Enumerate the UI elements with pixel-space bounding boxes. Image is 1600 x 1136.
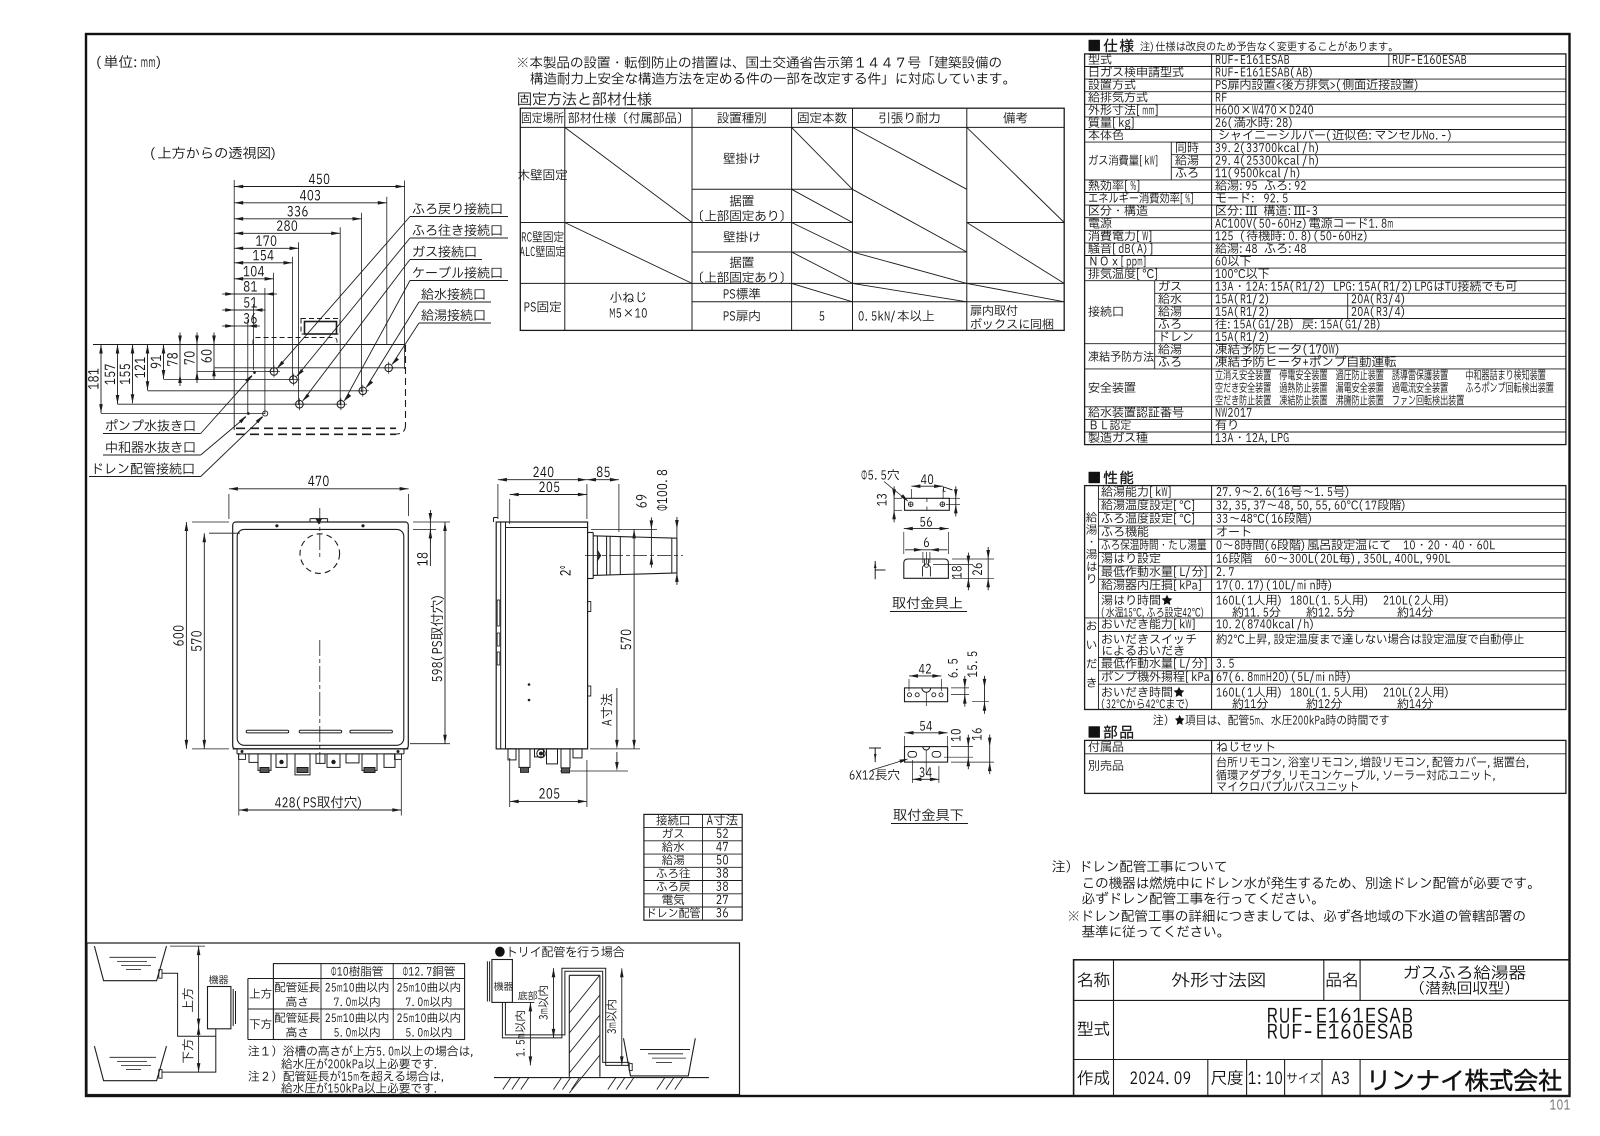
side view dots	[528, 683, 531, 686]
label ふろ往き接続口	[413, 224, 502, 236]
vdim 70	[196, 345, 198, 372]
label 給水接続口	[421, 288, 484, 300]
front view bottom slots	[246, 730, 289, 733]
bracket lower 16 dim	[989, 747, 991, 763]
bracket orientation mark upper	[875, 561, 885, 579]
side view exhaust pipe	[588, 532, 594, 534]
piping length table	[273, 964, 464, 1040]
dim 154	[234, 262, 292, 264]
dim 280	[234, 232, 340, 234]
front view body outline	[233, 522, 409, 749]
front view top tab	[309, 519, 311, 522]
performance texts	[1101, 486, 1170, 498]
front view 570 dim	[203, 533, 205, 749]
pipe from lower tub	[162, 1036, 216, 1072]
bracket lower plate2 54 dim	[905, 732, 948, 734]
front view top center arrow mark	[316, 519, 322, 525]
side view back plate tab	[493, 518, 495, 523]
lower tub fitting	[159, 1070, 162, 1079]
spec model split	[1388, 54, 1390, 67]
teibu label	[518, 991, 537, 1000]
wall cross-section with hatching	[568, 975, 570, 1077]
side view 205 dim bottom	[510, 800, 587, 802]
bracket lower 10 dim	[967, 747, 969, 758]
A size table	[644, 814, 742, 920]
dim 51	[234, 309, 253, 311]
spec table title ■仕様	[1089, 39, 1134, 52]
parts table title ■部品	[1089, 725, 1133, 738]
spec 20A split	[1347, 293, 1349, 318]
dim 3m right	[621, 968, 623, 1065]
side view A dim	[616, 688, 618, 745]
front view 598 dim	[444, 522, 446, 744]
bracket lower label	[894, 809, 964, 821]
piping panel box	[87, 943, 740, 1095]
label phi5.5 hole	[862, 469, 899, 480]
title row3 dividers	[1207, 1060, 1209, 1097]
bracket lower 6.5 dim	[964, 688, 966, 695]
unit box (kiki)	[209, 975, 228, 984]
dim 1.5m inner	[529, 1002, 531, 1065]
parts texts	[1088, 741, 1123, 752]
side view left slots	[497, 600, 500, 626]
fixing method table	[520, 108, 1064, 330]
top view feature rows	[93, 344, 406, 346]
front view 428 dim	[239, 809, 401, 811]
dim 170	[234, 247, 298, 249]
bracket upper2 26 dim	[987, 559, 989, 578]
label 6X12 slot	[850, 769, 900, 780]
front view base and fittings	[233, 748, 409, 750]
torii unit box	[492, 960, 513, 1003]
front view top screws	[275, 524, 278, 527]
page number 101	[1550, 1099, 1570, 1109]
side view body	[496, 522, 587, 749]
bracket upper 40 dim	[911, 485, 943, 487]
top view exhaust duct box	[301, 319, 340, 335]
side view 2deg label	[560, 566, 570, 575]
front view exhaust dashed circle	[300, 534, 340, 574]
dim 3m left	[553, 968, 555, 1038]
right bath tub	[624, 1038, 696, 1076]
fixing table title	[518, 92, 651, 106]
vdim 121	[147, 345, 149, 391]
label 中和器水抜き口	[106, 441, 194, 453]
bracket upper2 body	[904, 559, 949, 578]
spec table grid	[1085, 54, 1566, 445]
performance table grid	[1085, 486, 1566, 710]
top view inner dashed panel line	[253, 338, 337, 345]
vdim 181	[100, 345, 102, 414]
torii piping title	[495, 946, 624, 957]
upper bath tub	[94, 946, 166, 981]
bracket upper 13 dim	[893, 498, 895, 510]
vdim 78	[179, 345, 181, 375]
label ドレン配管接続口	[95, 463, 194, 475]
bracket lower 34 dim	[912, 778, 939, 780]
drain small fittings	[247, 412, 250, 415]
performance table title ■性能	[1089, 471, 1133, 484]
front view centerline	[319, 508, 321, 560]
bracket lower plate1	[905, 688, 948, 702]
side view front edge knobs	[588, 602, 591, 612]
side view pipe centerline	[585, 555, 683, 557]
top view body outline dashed	[405, 345, 407, 425]
bracket lower plate1 42 dim	[909, 675, 941, 677]
side view 69 dim	[591, 528, 657, 530]
label ふろ戻り接続口	[413, 203, 502, 215]
piping notes	[248, 1045, 472, 1057]
side view 205 dim top	[510, 494, 587, 496]
front view 470 dim	[229, 488, 409, 490]
right tub fitting	[629, 1064, 632, 1071]
title row1 dividers	[1323, 960, 1325, 1001]
vdim 91	[163, 345, 165, 380]
label 給湯接続口	[421, 309, 484, 321]
label ポンプ水抜き口	[106, 419, 195, 431]
drain piping note	[1052, 860, 1226, 872]
bracket upper plate	[905, 498, 950, 510]
title block	[1074, 960, 1570, 1096]
vdim 157	[117, 345, 119, 405]
label ケーブル接続口	[413, 266, 501, 278]
dim 336	[234, 218, 361, 220]
ground line and hatches	[494, 1077, 709, 1079]
bracket upper2 6 dim	[905, 549, 948, 551]
side view bottom fittings	[506, 748, 588, 750]
spec sub col lines	[1170, 142, 1172, 180]
dim 36	[234, 325, 248, 327]
bracket upper 7 dim	[955, 498, 957, 504]
side view phi100.8 dim	[676, 529, 678, 573]
pipe from upper tub	[162, 973, 216, 1036]
side view 85 dim	[587, 479, 619, 481]
top view dim extension lines	[233, 180, 235, 345]
dim 450	[234, 186, 404, 188]
fixing table texts	[522, 112, 564, 123]
vdim 60	[213, 345, 215, 368]
fixing table diagonals	[565, 127, 692, 222]
front view 18 dim	[429, 522, 431, 529]
front view 600 dim	[185, 522, 187, 749]
title texts	[1078, 972, 1110, 987]
label ガス接続口	[413, 246, 475, 258]
bracket upper2 18 dim	[967, 565, 969, 579]
spec table texts	[1089, 54, 1112, 65]
side view 570 dim	[633, 529, 635, 749]
lower bath tub	[94, 1046, 166, 1081]
bracket lower 15.5 dim	[984, 688, 986, 702]
vdim 155	[132, 345, 134, 404]
bracket upper2 56 dim	[904, 528, 949, 530]
performance footnote	[1153, 714, 1388, 725]
bracket lower plate2	[905, 747, 948, 763]
performance group labels	[1086, 512, 1097, 584]
dim 403	[234, 202, 387, 204]
bracket orientation mark lower	[869, 748, 881, 762]
label (unit:mm)	[97, 55, 160, 69]
dim 104	[234, 278, 273, 280]
torii pipe route	[502, 968, 629, 1065]
top view connection circles	[270, 368, 278, 376]
parts table grid	[1085, 740, 1566, 793]
bracket upper label	[893, 597, 963, 609]
dim 81	[234, 293, 265, 295]
note about installation (kokudo koutsu)	[518, 56, 1001, 69]
top view title (上方からの透視図)	[151, 147, 274, 160]
upper tub outlet fitting	[159, 970, 162, 979]
side view 240 dim	[498, 479, 587, 481]
dim joho (upper)	[198, 946, 200, 1028]
dim kaho (lower)	[198, 1026, 200, 1072]
